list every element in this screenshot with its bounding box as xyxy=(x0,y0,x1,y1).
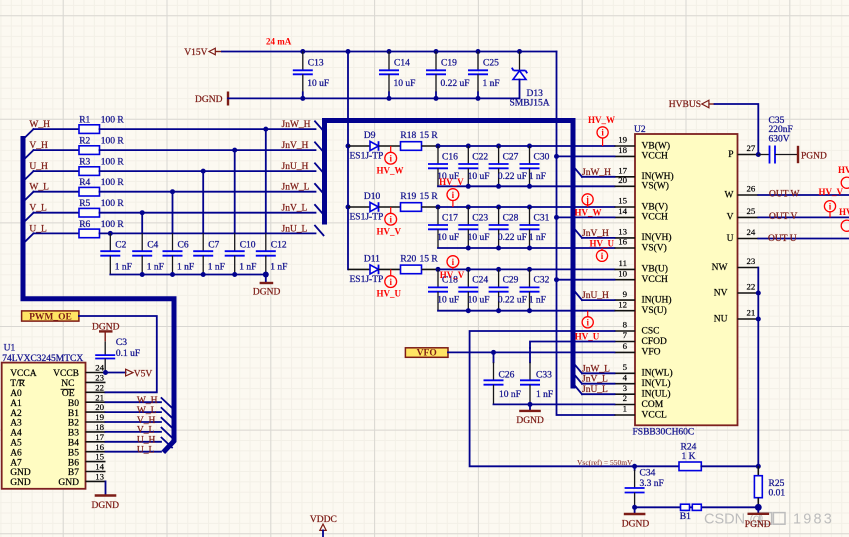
svg-text:5: 5 xyxy=(623,362,628,372)
svg-text:100 R: 100 R xyxy=(101,116,125,126)
svg-text:A6: A6 xyxy=(10,448,22,458)
fuse B1 xyxy=(680,504,702,522)
label 24 mA xyxy=(266,37,292,47)
svg-text:VB(W): VB(W) xyxy=(642,140,671,151)
net label HV_U (pin 16) + directive xyxy=(590,238,615,261)
svg-text:JnU_L: JnU_L xyxy=(282,224,308,234)
svg-text:10 uF: 10 uF xyxy=(468,295,490,305)
svg-text:A3: A3 xyxy=(10,419,22,429)
svg-text:A7: A7 xyxy=(10,458,22,468)
wire VS rail (D10 row) xyxy=(438,246,615,251)
power DGND (C33) xyxy=(516,404,544,426)
wire VS rail (D11 row) xyxy=(438,308,615,313)
wire U1 pin 18 net V_L xyxy=(106,426,162,436)
resistor R2 100 R xyxy=(34,137,125,155)
svg-text:15: 15 xyxy=(618,196,627,206)
wire U1 pin 20 net W_L xyxy=(106,406,162,416)
svg-text:ES1J-TP: ES1J-TP xyxy=(350,275,384,285)
svg-text:NV: NV xyxy=(714,288,728,298)
wire OUT U (pin 24) xyxy=(758,220,849,244)
svg-text:PGND: PGND xyxy=(801,152,827,162)
wire PWM_OE to U1 OE (pin 22) xyxy=(79,316,157,392)
svg-text:U2: U2 xyxy=(634,125,646,135)
svg-text:C2: C2 xyxy=(115,241,126,251)
wire R1 to bus (JnW_H) xyxy=(100,127,316,132)
wire shunt bottom rail xyxy=(632,505,758,510)
svg-text:21: 21 xyxy=(95,392,104,402)
wire R3 to bus (JnU_H) xyxy=(100,169,316,174)
svg-text:W_L: W_L xyxy=(137,406,157,416)
resistor R19 15 R xyxy=(400,192,438,211)
svg-text:D13: D13 xyxy=(527,89,544,99)
svg-text:1 nF: 1 nF xyxy=(483,79,500,89)
svg-text:B5: B5 xyxy=(68,448,79,458)
capacitor C30 1 nF xyxy=(520,146,550,186)
svg-text:JnV_H: JnV_H xyxy=(582,229,609,239)
capacitor C18 10 uF xyxy=(428,269,459,310)
capacitor C17 10 uF xyxy=(428,207,459,248)
svg-text:VCCH: VCCH xyxy=(642,152,669,162)
svg-text:V15V: V15V xyxy=(184,48,207,58)
svg-text:JnU_H: JnU_H xyxy=(282,162,309,172)
wire U1 VCCB junction xyxy=(103,370,108,375)
directive HV_V (D10) xyxy=(377,207,402,236)
svg-text:VB(U): VB(U) xyxy=(642,264,668,275)
power PGND (C35) xyxy=(798,146,827,163)
svg-text:1 nF: 1 nF xyxy=(529,295,546,305)
svg-text:C25: C25 xyxy=(483,59,499,69)
resistor R25 0.01 xyxy=(754,466,785,507)
directive HV_W (D9) xyxy=(377,146,404,175)
net labels JnW_L JnV_L JnU_L (U2) xyxy=(582,364,615,395)
svg-text:IN(UH): IN(UH) xyxy=(642,294,672,305)
svg-text:JnW_L: JnW_L xyxy=(582,364,610,374)
capacitor C33 1 nF xyxy=(520,348,553,404)
net label W_H xyxy=(29,120,50,130)
directive HV_V (VB(U) rail) xyxy=(440,256,465,280)
svg-text:13: 13 xyxy=(95,472,104,482)
capacitor C23 10 uF xyxy=(458,207,489,248)
svg-text:C13: C13 xyxy=(308,59,324,69)
svg-text:NU: NU xyxy=(714,314,728,324)
wire U1 pin 16 net U_L xyxy=(106,446,162,456)
svg-text:24: 24 xyxy=(95,363,104,373)
bus JnW_H..JnU_L (resistors to U2 inputs) xyxy=(315,121,582,395)
capacitor C26 10 nF xyxy=(484,352,521,404)
watermark CSDN xyxy=(704,512,834,528)
svg-text:JnV_L: JnV_L xyxy=(282,204,308,214)
svg-text:C29: C29 xyxy=(503,276,519,286)
IC U2 FSBB30CH60C xyxy=(615,125,759,438)
svg-text:2: 2 xyxy=(623,393,627,403)
wire R2 to bus (JnV_H) xyxy=(100,148,316,153)
svg-text:VCCB: VCCB xyxy=(53,369,79,379)
svg-text:0.22 uF: 0.22 uF xyxy=(498,172,527,182)
svg-text:VFO: VFO xyxy=(417,349,437,359)
svg-text:VCCA: VCCA xyxy=(10,369,37,379)
svg-text:HV_U: HV_U xyxy=(590,238,615,248)
svg-text:CSC: CSC xyxy=(642,326,660,336)
svg-text:VCCL: VCCL xyxy=(642,410,668,420)
power port VDDC xyxy=(310,515,337,537)
net label JnV_H (U2) xyxy=(582,229,615,239)
capacitor C14 10 uF xyxy=(379,52,415,99)
svg-text:NW: NW xyxy=(712,263,728,273)
svg-text:OUT W: OUT W xyxy=(769,189,800,199)
svg-text:B7: B7 xyxy=(68,468,79,478)
svg-text:C22: C22 xyxy=(472,152,488,162)
svg-text:18: 18 xyxy=(95,422,104,432)
net label JnW_L xyxy=(282,183,310,193)
svg-text:C17: C17 xyxy=(442,213,458,223)
directive HV_W (pin 19) xyxy=(588,115,615,146)
capacitor C28 0.22 uF xyxy=(489,207,527,248)
resistor R5 100 R xyxy=(34,199,125,217)
port VFO xyxy=(405,348,448,359)
svg-text:3: 3 xyxy=(623,383,628,393)
svg-text:15 R: 15 R xyxy=(420,192,439,202)
svg-text:26: 26 xyxy=(747,184,756,194)
svg-text:10 uF: 10 uF xyxy=(468,233,490,243)
capacitor C13 10 uF xyxy=(293,52,329,99)
net label JnV_H xyxy=(282,141,309,151)
svg-text:C3: C3 xyxy=(116,338,127,348)
capacitor C2 1 nF xyxy=(100,233,132,274)
svg-text:20: 20 xyxy=(95,402,104,412)
wire V15V to VCCH/VCCL xyxy=(554,52,615,416)
svg-text:14: 14 xyxy=(618,206,627,216)
svg-text:HV_V: HV_V xyxy=(819,187,844,197)
diode D10 ES1J-TP xyxy=(348,192,401,223)
svg-text:R6: R6 xyxy=(79,220,90,230)
svg-text:1 nF: 1 nF xyxy=(270,263,287,273)
wire U2 pin10 VCCH xyxy=(557,279,615,281)
net label JnU_L xyxy=(282,224,308,234)
svg-text:OE: OE xyxy=(62,389,75,399)
svg-text:10 uF: 10 uF xyxy=(468,172,490,182)
svg-text:1 nF: 1 nF xyxy=(208,263,225,273)
svg-text:IN(UL): IN(UL) xyxy=(642,389,671,400)
svg-text:13: 13 xyxy=(618,227,627,237)
svg-text:JnU_L: JnU_L xyxy=(582,385,608,395)
svg-text:74LVXC3245MTCX: 74LVXC3245MTCX xyxy=(2,354,83,364)
svg-text:19: 19 xyxy=(618,135,627,145)
capacitor C34 3.3 nF xyxy=(625,466,664,507)
wire NW/NV/NU to shunt xyxy=(756,268,761,467)
power DGND (U1 pin13) xyxy=(92,481,120,511)
svg-text:U_L: U_L xyxy=(137,446,155,456)
svg-text:12: 12 xyxy=(618,299,627,309)
svg-text:B6: B6 xyxy=(68,458,79,468)
svg-text:D10: D10 xyxy=(364,192,381,202)
bus W_H..U_L (left, resistors to U1) xyxy=(23,129,174,450)
wire VFO to pin 6 xyxy=(448,350,615,355)
svg-text:1: 1 xyxy=(623,404,627,414)
svg-text:6: 6 xyxy=(623,341,628,351)
svg-text:DGND: DGND xyxy=(195,95,223,105)
svg-text:0.22 uF: 0.22 uF xyxy=(441,79,470,89)
svg-text:15 R: 15 R xyxy=(420,254,439,264)
svg-text:OUT U: OUT U xyxy=(768,234,797,244)
svg-text:B2: B2 xyxy=(68,419,79,429)
svg-text:C10: C10 xyxy=(240,241,256,251)
resistor R1 100 R xyxy=(34,116,125,134)
svg-text:1 nF: 1 nF xyxy=(147,263,164,273)
svg-text:24: 24 xyxy=(747,227,756,237)
svg-text:8: 8 xyxy=(623,320,628,330)
wire CSC sense xyxy=(470,331,679,469)
svg-text:W_H: W_H xyxy=(137,396,158,406)
capacitor C29 0.22 uF xyxy=(489,269,527,310)
wire COM/DGND rail xyxy=(494,402,615,407)
diode D13 (TVS SMBJ15A) xyxy=(510,52,550,109)
svg-text:15: 15 xyxy=(95,452,104,462)
resistor R3 100 R xyxy=(34,158,125,176)
svg-text:A2: A2 xyxy=(10,409,22,419)
svg-text:HV: HV xyxy=(838,165,849,175)
svg-text:ES1J-TP: ES1J-TP xyxy=(350,152,384,162)
power DGND (C2 rail) xyxy=(253,275,281,298)
capacitor C35 220nF 630V xyxy=(758,116,797,164)
wire U1 pin 19 net V_H xyxy=(106,416,162,426)
svg-text:C7: C7 xyxy=(208,241,219,251)
svg-text:0.22 uF: 0.22 uF xyxy=(498,295,527,305)
svg-text:18: 18 xyxy=(618,145,627,155)
port PWM_OE xyxy=(22,311,79,322)
svg-text:B0: B0 xyxy=(68,399,79,409)
svg-text:1 nF: 1 nF xyxy=(239,263,256,273)
svg-text:HV: HV xyxy=(839,207,849,217)
svg-text:0.01: 0.01 xyxy=(769,489,786,499)
svg-text:1983: 1983 xyxy=(793,512,834,528)
svg-text:JnW_H: JnW_H xyxy=(582,168,611,178)
svg-text:16: 16 xyxy=(618,237,627,247)
svg-text:630V: 630V xyxy=(769,134,790,144)
power PGND (shunt) xyxy=(745,504,771,530)
svg-text:GND: GND xyxy=(58,478,79,488)
svg-text:HV_V: HV_V xyxy=(439,177,464,187)
directive i (pin 15) xyxy=(582,194,593,207)
svg-text:PWM_OE: PWM_OE xyxy=(29,312,72,322)
directive i (pin 12) xyxy=(582,311,593,328)
wire U2 pin7 CFOD xyxy=(530,342,615,349)
net label W_L xyxy=(29,183,49,193)
svg-text:A0: A0 xyxy=(10,389,22,399)
svg-text:19: 19 xyxy=(95,412,104,422)
wire U2 pin18 VCCH xyxy=(557,155,615,157)
svg-text:0.22 uF: 0.22 uF xyxy=(498,233,527,243)
svg-text:ES1J-TP: ES1J-TP xyxy=(350,213,384,223)
svg-text:VS(U): VS(U) xyxy=(642,305,667,316)
svg-text:4: 4 xyxy=(623,372,628,382)
svg-text:23: 23 xyxy=(95,373,104,383)
capacitor C19 0.22 uF xyxy=(426,52,470,99)
IC U1 74LVXC3245MTCX xyxy=(2,344,106,489)
svg-text:100 R: 100 R xyxy=(101,199,125,209)
svg-text:C26: C26 xyxy=(499,370,515,380)
wire V15V rail xyxy=(222,49,557,54)
svg-text:1 K: 1 K xyxy=(682,452,696,462)
wire U1 pin 21 net W_H xyxy=(106,396,162,406)
svg-text:17: 17 xyxy=(618,166,627,176)
svg-text:C34: C34 xyxy=(640,469,656,479)
svg-text:1 nF: 1 nF xyxy=(536,390,553,400)
capacitor C32 1 nF xyxy=(520,269,550,310)
svg-text:10 uF: 10 uF xyxy=(307,79,329,89)
svg-text:1 nF: 1 nF xyxy=(177,263,194,273)
svg-text:V_L: V_L xyxy=(137,426,155,436)
svg-text:C28: C28 xyxy=(503,213,519,223)
svg-text:100 R: 100 R xyxy=(101,158,125,168)
resistor R20 15 R xyxy=(400,254,438,273)
svg-text:17: 17 xyxy=(95,432,104,442)
svg-text:A4: A4 xyxy=(10,429,22,439)
svg-text:U_H: U_H xyxy=(137,436,156,446)
svg-text:VCCH: VCCH xyxy=(642,213,669,223)
svg-text:HV_U: HV_U xyxy=(575,332,600,342)
svg-text:R18: R18 xyxy=(400,131,416,141)
wire OUT V (pin 25) xyxy=(758,201,849,222)
net label JnW_H (U2) xyxy=(582,168,615,178)
net label HV_U (pin 7) xyxy=(575,332,600,342)
svg-text:11: 11 xyxy=(619,258,627,268)
svg-text:C19: C19 xyxy=(441,59,457,69)
svg-text:22: 22 xyxy=(747,282,756,292)
power DGND (C3) xyxy=(92,323,120,342)
svg-text:HVBUS: HVBUS xyxy=(669,100,701,110)
svg-text:100 R: 100 R xyxy=(101,137,125,147)
svg-text:24 mA: 24 mA xyxy=(266,37,292,47)
diode D9 ES1J-TP xyxy=(348,131,401,162)
svg-text:R3: R3 xyxy=(79,158,90,168)
power port V5V xyxy=(106,369,153,379)
net label JnV_L xyxy=(282,204,308,214)
net label JnW_H xyxy=(282,120,311,130)
svg-text:FSBB30CH60C: FSBB30CH60C xyxy=(633,428,695,438)
svg-text:A5: A5 xyxy=(10,439,22,449)
svg-text:14: 14 xyxy=(95,462,104,472)
svg-text:9: 9 xyxy=(623,289,628,299)
net label HV_W (pin 14) xyxy=(557,208,615,218)
svg-text:10 uF: 10 uF xyxy=(437,295,459,305)
svg-text:D9: D9 xyxy=(364,131,376,141)
directive HV_U (D11) xyxy=(377,269,402,298)
wire C2..C12 ground rail xyxy=(110,272,268,278)
svg-text:1 nF: 1 nF xyxy=(115,263,132,273)
svg-text:DGND: DGND xyxy=(253,287,281,297)
net label U_L xyxy=(29,224,47,234)
svg-text:OUT V: OUT V xyxy=(769,212,798,222)
svg-text:D11: D11 xyxy=(364,254,380,264)
svg-text:C33: C33 xyxy=(536,370,552,380)
svg-text:20: 20 xyxy=(618,175,627,185)
svg-text:DGND: DGND xyxy=(516,416,544,426)
wire U1 pin 17 net U_H xyxy=(106,436,162,446)
svg-text:C27: C27 xyxy=(503,152,519,162)
wire R5 to bus (JnV_L) xyxy=(100,210,316,215)
svg-text:HV_W: HV_W xyxy=(588,115,615,125)
capacitor C4 1 nF xyxy=(132,213,164,275)
svg-text:U1: U1 xyxy=(4,344,16,354)
svg-text:C6: C6 xyxy=(178,241,189,251)
capacitor C16 10 uF xyxy=(428,146,459,186)
svg-text:3.3 nF: 3.3 nF xyxy=(640,479,664,489)
svg-text:PGND: PGND xyxy=(745,520,771,530)
resistor R18 15 R xyxy=(400,131,438,150)
capacitor C10 1 nF xyxy=(225,150,257,274)
svg-text:C30: C30 xyxy=(534,152,550,162)
capacitor C22 10 uF xyxy=(458,146,489,186)
svg-text:JnU_H: JnU_H xyxy=(582,291,609,301)
capacitor C12 1 nF xyxy=(256,129,288,274)
svg-text:B3: B3 xyxy=(68,429,79,439)
power DGND (top rail) xyxy=(195,92,228,106)
net label V_L xyxy=(29,204,47,214)
svg-text:C31: C31 xyxy=(534,213,550,223)
svg-text:V5V: V5V xyxy=(134,369,153,379)
svg-text:JnV_L: JnV_L xyxy=(582,375,608,385)
svg-text:HV_V: HV_V xyxy=(440,270,465,280)
svg-text:1 nF: 1 nF xyxy=(529,233,546,243)
svg-text:W: W xyxy=(725,190,734,200)
svg-text:15 R: 15 R xyxy=(420,131,439,141)
power port HVBUS xyxy=(669,100,715,110)
resistor R6 100 R xyxy=(34,220,125,238)
svg-text:R20: R20 xyxy=(400,254,416,264)
wire VB rail (D9 row) xyxy=(422,144,615,149)
svg-text:VS(V): VS(V) xyxy=(642,242,667,253)
svg-text:VS(W): VS(W) xyxy=(642,181,669,192)
wire V15V feed to bootstrap diodes xyxy=(346,52,351,270)
svg-text:25: 25 xyxy=(747,206,756,216)
capacitor C31 1 nF xyxy=(520,207,550,248)
resistor R24 1 K xyxy=(679,443,761,471)
capacitor C6 1 nF xyxy=(163,192,195,275)
net label Vsc(ref) = 550mV xyxy=(577,458,633,467)
net label V_H xyxy=(29,141,48,151)
svg-text:GND: GND xyxy=(10,478,31,488)
svg-text:HV_W: HV_W xyxy=(377,165,404,175)
svg-text:100 R: 100 R xyxy=(101,178,125,188)
net label JnU_H xyxy=(282,162,309,172)
svg-text:VDDC: VDDC xyxy=(310,515,337,525)
svg-text:VFO: VFO xyxy=(642,348,661,358)
svg-text:COM: COM xyxy=(642,400,664,410)
svg-text:JnW_L: JnW_L xyxy=(282,183,310,193)
svg-text:IN(WH): IN(WH) xyxy=(642,171,674,182)
svg-text:C4: C4 xyxy=(147,241,158,251)
svg-text:IN(VH): IN(VH) xyxy=(642,232,672,243)
svg-text:10: 10 xyxy=(618,268,627,278)
svg-text:100 R: 100 R xyxy=(101,220,125,230)
wire VS rail (D9 row) xyxy=(438,184,615,189)
wire R6 to bus (JnU_L) xyxy=(100,231,316,236)
wire VB rail (D11 row) xyxy=(422,267,615,272)
svg-text:VCCH: VCCH xyxy=(642,275,669,285)
svg-text:P: P xyxy=(728,150,733,160)
svg-text:HV_V: HV_V xyxy=(377,226,402,236)
svg-text:23: 23 xyxy=(747,256,756,266)
svg-text:C23: C23 xyxy=(472,213,488,223)
svg-text:R24: R24 xyxy=(681,443,697,453)
svg-text:GND: GND xyxy=(10,468,31,478)
capacitor C25 1 nF xyxy=(468,52,500,99)
svg-text:A1: A1 xyxy=(10,399,22,409)
svg-text:C32: C32 xyxy=(534,276,550,286)
capacitor C3 0.1 uF xyxy=(95,338,140,373)
svg-text:R25: R25 xyxy=(769,479,785,489)
power DGND (C34) xyxy=(622,507,650,529)
